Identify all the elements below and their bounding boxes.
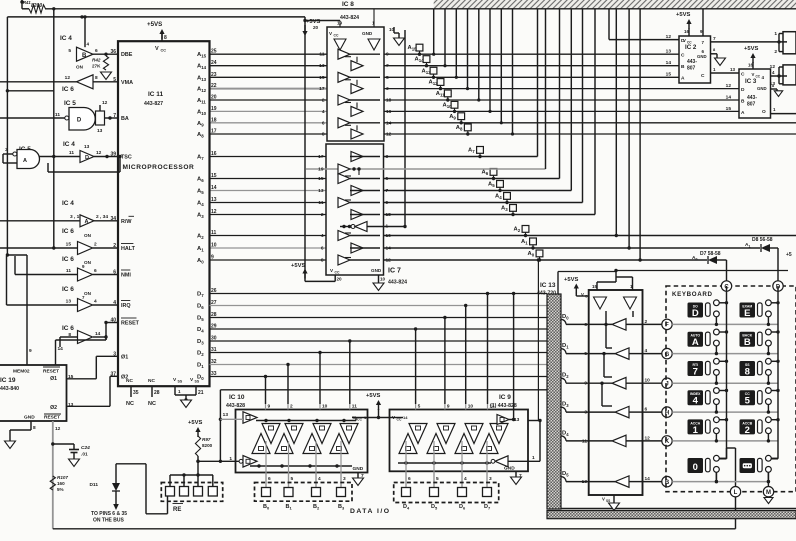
svg-text:24: 24 — [211, 60, 217, 66]
svg-text:4: 4 — [693, 396, 699, 407]
svg-text:9: 9 — [447, 404, 450, 410]
svg-text:9: 9 — [386, 52, 389, 58]
svg-text:15: 15 — [66, 242, 72, 248]
svg-text:1: 1 — [532, 455, 535, 461]
svg-text:SS: SS — [178, 380, 183, 384]
svg-text:TO PINS 6 & 35: TO PINS 6 & 35 — [91, 511, 127, 517]
svg-text:B0: B0 — [263, 504, 270, 511]
svg-text:IC 6: IC 6 — [62, 286, 74, 293]
svg-text:443-720: 443-720 — [537, 291, 556, 297]
svg-text:2: 2 — [290, 404, 293, 410]
svg-text:A7: A7 — [197, 155, 204, 162]
svg-text:IC 13: IC 13 — [540, 282, 556, 289]
svg-text:A: A — [681, 76, 685, 82]
svg-text:A11: A11 — [197, 98, 206, 105]
svg-text:D6: D6 — [197, 304, 204, 311]
svg-text:16: 16 — [386, 109, 392, 115]
svg-text:16: 16 — [386, 233, 392, 239]
svg-text:3: 3 — [5, 147, 8, 153]
svg-text:V: V — [581, 292, 584, 297]
svg-text:19: 19 — [318, 167, 324, 173]
svg-text:D3: D3 — [197, 339, 204, 346]
svg-text:R42: R42 — [92, 58, 101, 63]
svg-text:443-: 443- — [747, 95, 757, 101]
svg-text:CC: CC — [357, 418, 362, 422]
svg-text:0: 0 — [693, 462, 698, 473]
svg-text:9: 9 — [211, 255, 214, 261]
svg-text:L: L — [734, 490, 738, 496]
svg-text:11: 11 — [69, 150, 74, 156]
svg-text:10: 10 — [322, 404, 328, 410]
svg-text:O: O — [762, 109, 766, 115]
svg-text:443-824: 443-824 — [340, 15, 359, 21]
svg-text:A1: A1 — [197, 246, 204, 253]
svg-text:20: 20 — [313, 25, 319, 30]
svg-text:5: 5 — [418, 404, 421, 410]
svg-text:160: 160 — [57, 481, 65, 486]
svg-text:Ø1: Ø1 — [50, 376, 57, 382]
svg-text:IC 5: IC 5 — [64, 100, 76, 107]
svg-text:V: V — [602, 497, 605, 502]
svg-text:+5VS: +5VS — [676, 12, 690, 18]
svg-text:ON: ON — [84, 260, 92, 265]
svg-text:8200: 8200 — [202, 443, 213, 448]
svg-text:D: D — [77, 118, 82, 124]
svg-text:18: 18 — [386, 212, 392, 218]
svg-text:2: 2 — [322, 98, 325, 104]
svg-text:SS: SS — [195, 380, 200, 384]
svg-text:13: 13 — [84, 144, 90, 150]
svg-text:11: 11 — [55, 112, 60, 118]
svg-text:IC 3: IC 3 — [745, 78, 757, 85]
svg-text:13: 13 — [730, 67, 736, 72]
svg-text:GND: GND — [757, 86, 767, 91]
svg-text:5: 5 — [386, 75, 389, 81]
svg-text:4: 4 — [321, 233, 324, 239]
svg-text:NC: NC — [148, 401, 156, 407]
svg-text:C: C — [701, 73, 705, 79]
svg-text:8: 8 — [745, 367, 750, 378]
svg-text:D7: D7 — [197, 292, 204, 299]
svg-text:2: 2 — [321, 212, 324, 218]
svg-text:V: V — [683, 38, 686, 43]
svg-text:10: 10 — [211, 243, 217, 249]
svg-text:D: D — [692, 308, 699, 319]
svg-text:5: 5 — [745, 396, 751, 407]
svg-text:13: 13 — [223, 412, 229, 418]
svg-text:18: 18 — [211, 117, 217, 123]
svg-text:ON: ON — [76, 65, 84, 70]
svg-text:807: 807 — [747, 102, 756, 108]
svg-text:A: A — [23, 158, 27, 164]
svg-text:B2: B2 — [313, 504, 320, 511]
svg-text:D11: D11 — [89, 482, 98, 488]
svg-text:13: 13 — [66, 299, 72, 305]
svg-text:IC 6: IC 6 — [62, 228, 74, 235]
svg-text:12: 12 — [386, 258, 392, 264]
svg-text:.01: .01 — [81, 452, 88, 458]
svg-text:IC 6: IC 6 — [62, 325, 74, 332]
svg-text:2: 2 — [774, 49, 777, 55]
svg-text:D1: D1 — [197, 363, 204, 370]
svg-text:R/W: R/W — [121, 219, 132, 225]
svg-text:A15: A15 — [408, 45, 418, 52]
svg-text:A4: A4 — [197, 201, 204, 208]
svg-text:+5VS: +5VS — [744, 46, 758, 52]
svg-text:4: 4 — [464, 476, 467, 482]
svg-text:9: 9 — [386, 200, 389, 206]
svg-text:11: 11 — [319, 52, 324, 58]
svg-text:TSC: TSC — [121, 155, 132, 161]
svg-text:16: 16 — [211, 151, 217, 157]
svg-text:13: 13 — [211, 197, 217, 203]
svg-text:28: 28 — [154, 390, 160, 396]
svg-text:10: 10 — [468, 404, 474, 410]
svg-text:C24: C24 — [81, 445, 90, 451]
svg-text:B: B — [681, 64, 685, 70]
svg-text:+5VS: +5VS — [366, 393, 380, 399]
svg-text:7: 7 — [386, 188, 389, 194]
svg-text:2: 2 — [94, 242, 97, 248]
svg-text:A5: A5 — [488, 182, 495, 189]
svg-text:3: 3 — [386, 86, 389, 92]
svg-text:RESET: RESET — [44, 415, 60, 421]
svg-text:A15: A15 — [197, 52, 207, 59]
svg-text:A12: A12 — [197, 87, 207, 94]
svg-text:Ø2: Ø2 — [50, 405, 57, 411]
svg-text:14: 14 — [386, 120, 392, 126]
svg-text:A10: A10 — [443, 102, 453, 109]
svg-text:+5VS: +5VS — [147, 21, 162, 28]
svg-text:DATA I/O: DATA I/O — [350, 508, 391, 515]
svg-text:CC: CC — [687, 40, 692, 44]
svg-text:C: C — [681, 53, 685, 59]
svg-text:11: 11 — [66, 268, 71, 274]
svg-text:8: 8 — [95, 75, 98, 81]
svg-text:RESET: RESET — [43, 369, 59, 375]
svg-text:IC 10: IC 10 — [229, 394, 245, 401]
svg-text:NC: NC — [126, 378, 133, 384]
svg-text:D4: D4 — [197, 327, 204, 334]
svg-text:14: 14 — [403, 415, 408, 420]
svg-text:6: 6 — [408, 476, 411, 482]
svg-text:18: 18 — [386, 98, 392, 104]
svg-text:15: 15 — [726, 106, 732, 112]
svg-text:13: 13 — [770, 81, 776, 87]
svg-text:IRQ: IRQ — [121, 303, 131, 309]
svg-text:ON: ON — [84, 291, 92, 296]
svg-text:19: 19 — [211, 106, 217, 112]
svg-text:B: B — [741, 99, 745, 105]
svg-text:BA: BA — [121, 116, 129, 122]
svg-text:8: 8 — [33, 425, 36, 431]
svg-text:35: 35 — [133, 390, 139, 396]
svg-text:+5: +5 — [786, 252, 792, 258]
svg-text:RE: RE — [173, 507, 181, 513]
svg-text:A: A — [741, 110, 745, 116]
svg-text:8: 8 — [322, 132, 325, 138]
svg-text:GND: GND — [371, 268, 382, 273]
svg-text:15: 15 — [319, 75, 325, 81]
svg-text:6: 6 — [321, 246, 324, 252]
svg-text:GND: GND — [697, 54, 707, 59]
svg-text:D: D — [741, 87, 745, 93]
svg-text:9: 9 — [268, 404, 271, 410]
svg-text:GND: GND — [504, 466, 515, 472]
svg-text:25: 25 — [211, 49, 217, 55]
svg-text:CC: CC — [756, 74, 761, 78]
svg-text:IC 4: IC 4 — [62, 200, 74, 207]
svg-text:15: 15 — [666, 72, 672, 78]
svg-text:ON THE BUS: ON THE BUS — [93, 518, 125, 524]
svg-text:A14: A14 — [197, 64, 207, 71]
svg-text:12: 12 — [726, 83, 732, 89]
svg-text:D3: D3 — [562, 402, 569, 409]
svg-text:D0: D0 — [562, 314, 569, 321]
svg-text:V: V — [752, 72, 755, 77]
svg-text:HALT: HALT — [121, 246, 136, 252]
svg-text:D6: D6 — [459, 504, 466, 511]
svg-text:IC 7: IC 7 — [388, 268, 401, 275]
svg-text:A3: A3 — [197, 213, 204, 220]
svg-text:B: B — [744, 337, 751, 348]
svg-text:IC 9: IC 9 — [499, 394, 511, 401]
svg-text:IC 2: IC 2 — [685, 44, 697, 51]
svg-text:Ø1: Ø1 — [121, 354, 128, 360]
svg-text:20: 20 — [211, 95, 217, 101]
svg-text:6: 6 — [94, 268, 97, 274]
svg-text:A8: A8 — [456, 125, 463, 132]
svg-text:A8: A8 — [197, 132, 204, 139]
svg-text:1: 1 — [178, 389, 181, 394]
svg-text:A6: A6 — [482, 170, 489, 177]
svg-text:D7 58-58: D7 58-58 — [700, 251, 721, 257]
svg-text:6: 6 — [268, 476, 271, 482]
svg-text:D4: D4 — [403, 504, 410, 511]
svg-text:C: C — [741, 72, 745, 78]
svg-text:2 , 34: 2 , 34 — [96, 214, 108, 220]
svg-text:IC 6: IC 6 — [62, 256, 74, 263]
svg-text:12: 12 — [65, 75, 71, 81]
svg-text:A5: A5 — [197, 189, 204, 196]
svg-text:A6: A6 — [197, 177, 204, 184]
svg-text:IC 19: IC 19 — [0, 377, 16, 384]
svg-text:D5: D5 — [562, 471, 569, 478]
svg-text:15: 15 — [318, 176, 324, 182]
svg-text:17: 17 — [318, 154, 324, 160]
svg-text:21: 21 — [198, 390, 204, 396]
svg-text:11: 11 — [490, 404, 495, 410]
svg-text:A12: A12 — [429, 80, 439, 87]
svg-text:3 , 1: 3 , 1 — [70, 214, 80, 220]
svg-text:13: 13 — [97, 128, 103, 134]
svg-text:14: 14 — [58, 346, 64, 352]
svg-text:CC: CC — [585, 294, 590, 298]
svg-text:15: 15 — [211, 173, 217, 179]
svg-text:A: A — [692, 337, 699, 348]
svg-text:GND: GND — [362, 31, 373, 36]
svg-text:5: 5 — [386, 176, 389, 182]
svg-text:CC: CC — [335, 271, 340, 275]
svg-text:14: 14 — [666, 60, 672, 66]
svg-text:12: 12 — [102, 100, 108, 106]
svg-text:11: 11 — [211, 230, 217, 236]
svg-text:IC 6: IC 6 — [62, 86, 74, 93]
svg-text:14: 14 — [726, 95, 732, 101]
svg-text:A0: A0 — [528, 251, 535, 258]
svg-text:D: D — [85, 155, 89, 161]
svg-text:RESET: RESET — [121, 321, 140, 327]
svg-text:MEM02: MEM02 — [13, 369, 30, 375]
svg-text:+5VS: +5VS — [564, 277, 578, 283]
svg-text:13: 13 — [318, 188, 324, 194]
svg-text:IC 8: IC 8 — [342, 1, 354, 8]
svg-text:D1: D1 — [562, 343, 569, 350]
svg-text:2: 2 — [745, 425, 750, 436]
svg-text:16: 16 — [684, 29, 690, 34]
svg-text:5: 5 — [436, 476, 439, 482]
svg-text:3: 3 — [489, 476, 492, 482]
svg-text:IC 11: IC 11 — [148, 91, 164, 98]
svg-text:23: 23 — [211, 72, 217, 78]
svg-text:6: 6 — [322, 120, 325, 126]
svg-text:1: 1 — [693, 425, 699, 436]
svg-text:A13: A13 — [197, 75, 207, 82]
svg-text:12: 12 — [770, 64, 776, 70]
svg-text:13: 13 — [319, 63, 325, 69]
svg-text:5: 5 — [291, 476, 294, 482]
svg-text:3: 3 — [343, 476, 346, 482]
svg-text:A3: A3 — [501, 206, 508, 213]
svg-text:A4: A4 — [495, 194, 502, 201]
svg-text:12: 12 — [211, 209, 217, 215]
svg-text:IC 4: IC 4 — [60, 35, 72, 42]
svg-text:17: 17 — [211, 129, 217, 135]
svg-text:12: 12 — [666, 34, 672, 40]
svg-text:D7: D7 — [484, 504, 491, 511]
svg-text:13: 13 — [68, 402, 74, 408]
svg-text:R107: R107 — [57, 475, 68, 480]
svg-text:A1: A1 — [521, 239, 528, 246]
svg-text:A: A — [85, 219, 89, 225]
svg-text:10: 10 — [380, 277, 386, 282]
svg-text:4: 4 — [322, 109, 325, 115]
svg-text:8: 8 — [321, 258, 324, 264]
svg-text:KEYBOARD: KEYBOARD — [672, 291, 713, 298]
svg-text:A10: A10 — [197, 109, 207, 116]
svg-text:A9: A9 — [197, 121, 204, 128]
svg-text:A2: A2 — [514, 227, 521, 234]
svg-text:14: 14 — [211, 185, 217, 191]
svg-text:R97: R97 — [202, 437, 211, 442]
svg-text:A11: A11 — [436, 91, 445, 98]
svg-text:443-840: 443-840 — [0, 386, 19, 392]
svg-text:7: 7 — [693, 367, 698, 378]
svg-text:14: 14 — [386, 246, 392, 252]
svg-text:A7: A7 — [468, 148, 475, 155]
svg-text:GND: GND — [24, 415, 35, 421]
svg-text:12: 12 — [96, 150, 102, 156]
svg-text:VMA: VMA — [121, 80, 133, 86]
svg-text:4: 4 — [94, 299, 97, 305]
svg-text:D2: D2 — [562, 373, 569, 380]
svg-text:443-828: 443-828 — [226, 403, 245, 409]
svg-text:27K: 27K — [92, 64, 101, 69]
svg-text:NC: NC — [148, 378, 155, 384]
svg-text:8: 8 — [164, 35, 167, 41]
svg-text:443-: 443- — [687, 59, 697, 65]
svg-text:M: M — [766, 490, 771, 496]
svg-text:4: 4 — [318, 476, 321, 482]
svg-text:GND: GND — [353, 466, 364, 472]
svg-text:807: 807 — [687, 66, 696, 72]
svg-text:A13: A13 — [422, 68, 432, 75]
svg-text:22: 22 — [211, 83, 217, 89]
svg-text:5%: 5% — [57, 487, 64, 492]
svg-text:11: 11 — [318, 200, 323, 206]
svg-text:A14: A14 — [415, 57, 425, 64]
svg-text:MICROPROCESSOR: MICROPROCESSOR — [123, 164, 195, 171]
svg-text:9: 9 — [29, 348, 32, 354]
svg-text:12: 12 — [386, 132, 392, 138]
svg-text:B3: B3 — [338, 504, 345, 511]
svg-text:7: 7 — [713, 36, 716, 42]
svg-text:R41: R41 — [23, 0, 31, 5]
svg-text:14: 14 — [95, 331, 101, 337]
svg-text:1: 1 — [774, 31, 777, 37]
svg-text:13: 13 — [666, 49, 672, 55]
svg-text:3: 3 — [386, 154, 389, 160]
svg-text:7: 7 — [386, 63, 389, 69]
svg-text:443-824: 443-824 — [388, 280, 407, 286]
svg-text:17: 17 — [319, 86, 325, 92]
svg-text:D4: D4 — [562, 430, 569, 437]
svg-text:V: V — [155, 46, 159, 52]
svg-text:16: 16 — [748, 63, 754, 68]
svg-text:NMI: NMI — [121, 273, 131, 279]
svg-text:D8 56-58: D8 56-58 — [752, 237, 773, 243]
svg-text:12: 12 — [55, 426, 61, 432]
svg-text:IC 4: IC 4 — [63, 141, 75, 148]
svg-text:B: B — [82, 53, 87, 59]
svg-text:B1: B1 — [286, 504, 293, 511]
svg-text:D5: D5 — [197, 316, 204, 323]
svg-text:11: 11 — [352, 404, 357, 410]
svg-text:A0: A0 — [197, 258, 204, 265]
svg-text:E: E — [744, 308, 750, 319]
svg-text:20: 20 — [337, 277, 343, 282]
svg-text:443-827: 443-827 — [144, 101, 163, 107]
svg-text:+5VS: +5VS — [188, 420, 202, 426]
svg-text:NC: NC — [126, 401, 134, 407]
svg-text:D2: D2 — [197, 351, 204, 358]
svg-text:CC: CC — [161, 49, 167, 53]
svg-text:CC: CC — [334, 34, 339, 38]
svg-text:D5: D5 — [431, 504, 438, 511]
svg-text:DBE: DBE — [121, 52, 133, 58]
svg-text:+5VS: +5VS — [291, 263, 305, 269]
svg-text:ON: ON — [84, 233, 92, 238]
svg-text:5: 5 — [68, 48, 71, 54]
svg-text:6: 6 — [95, 48, 98, 54]
svg-text:A2: A2 — [197, 234, 204, 241]
svg-text:A9: A9 — [449, 114, 456, 121]
